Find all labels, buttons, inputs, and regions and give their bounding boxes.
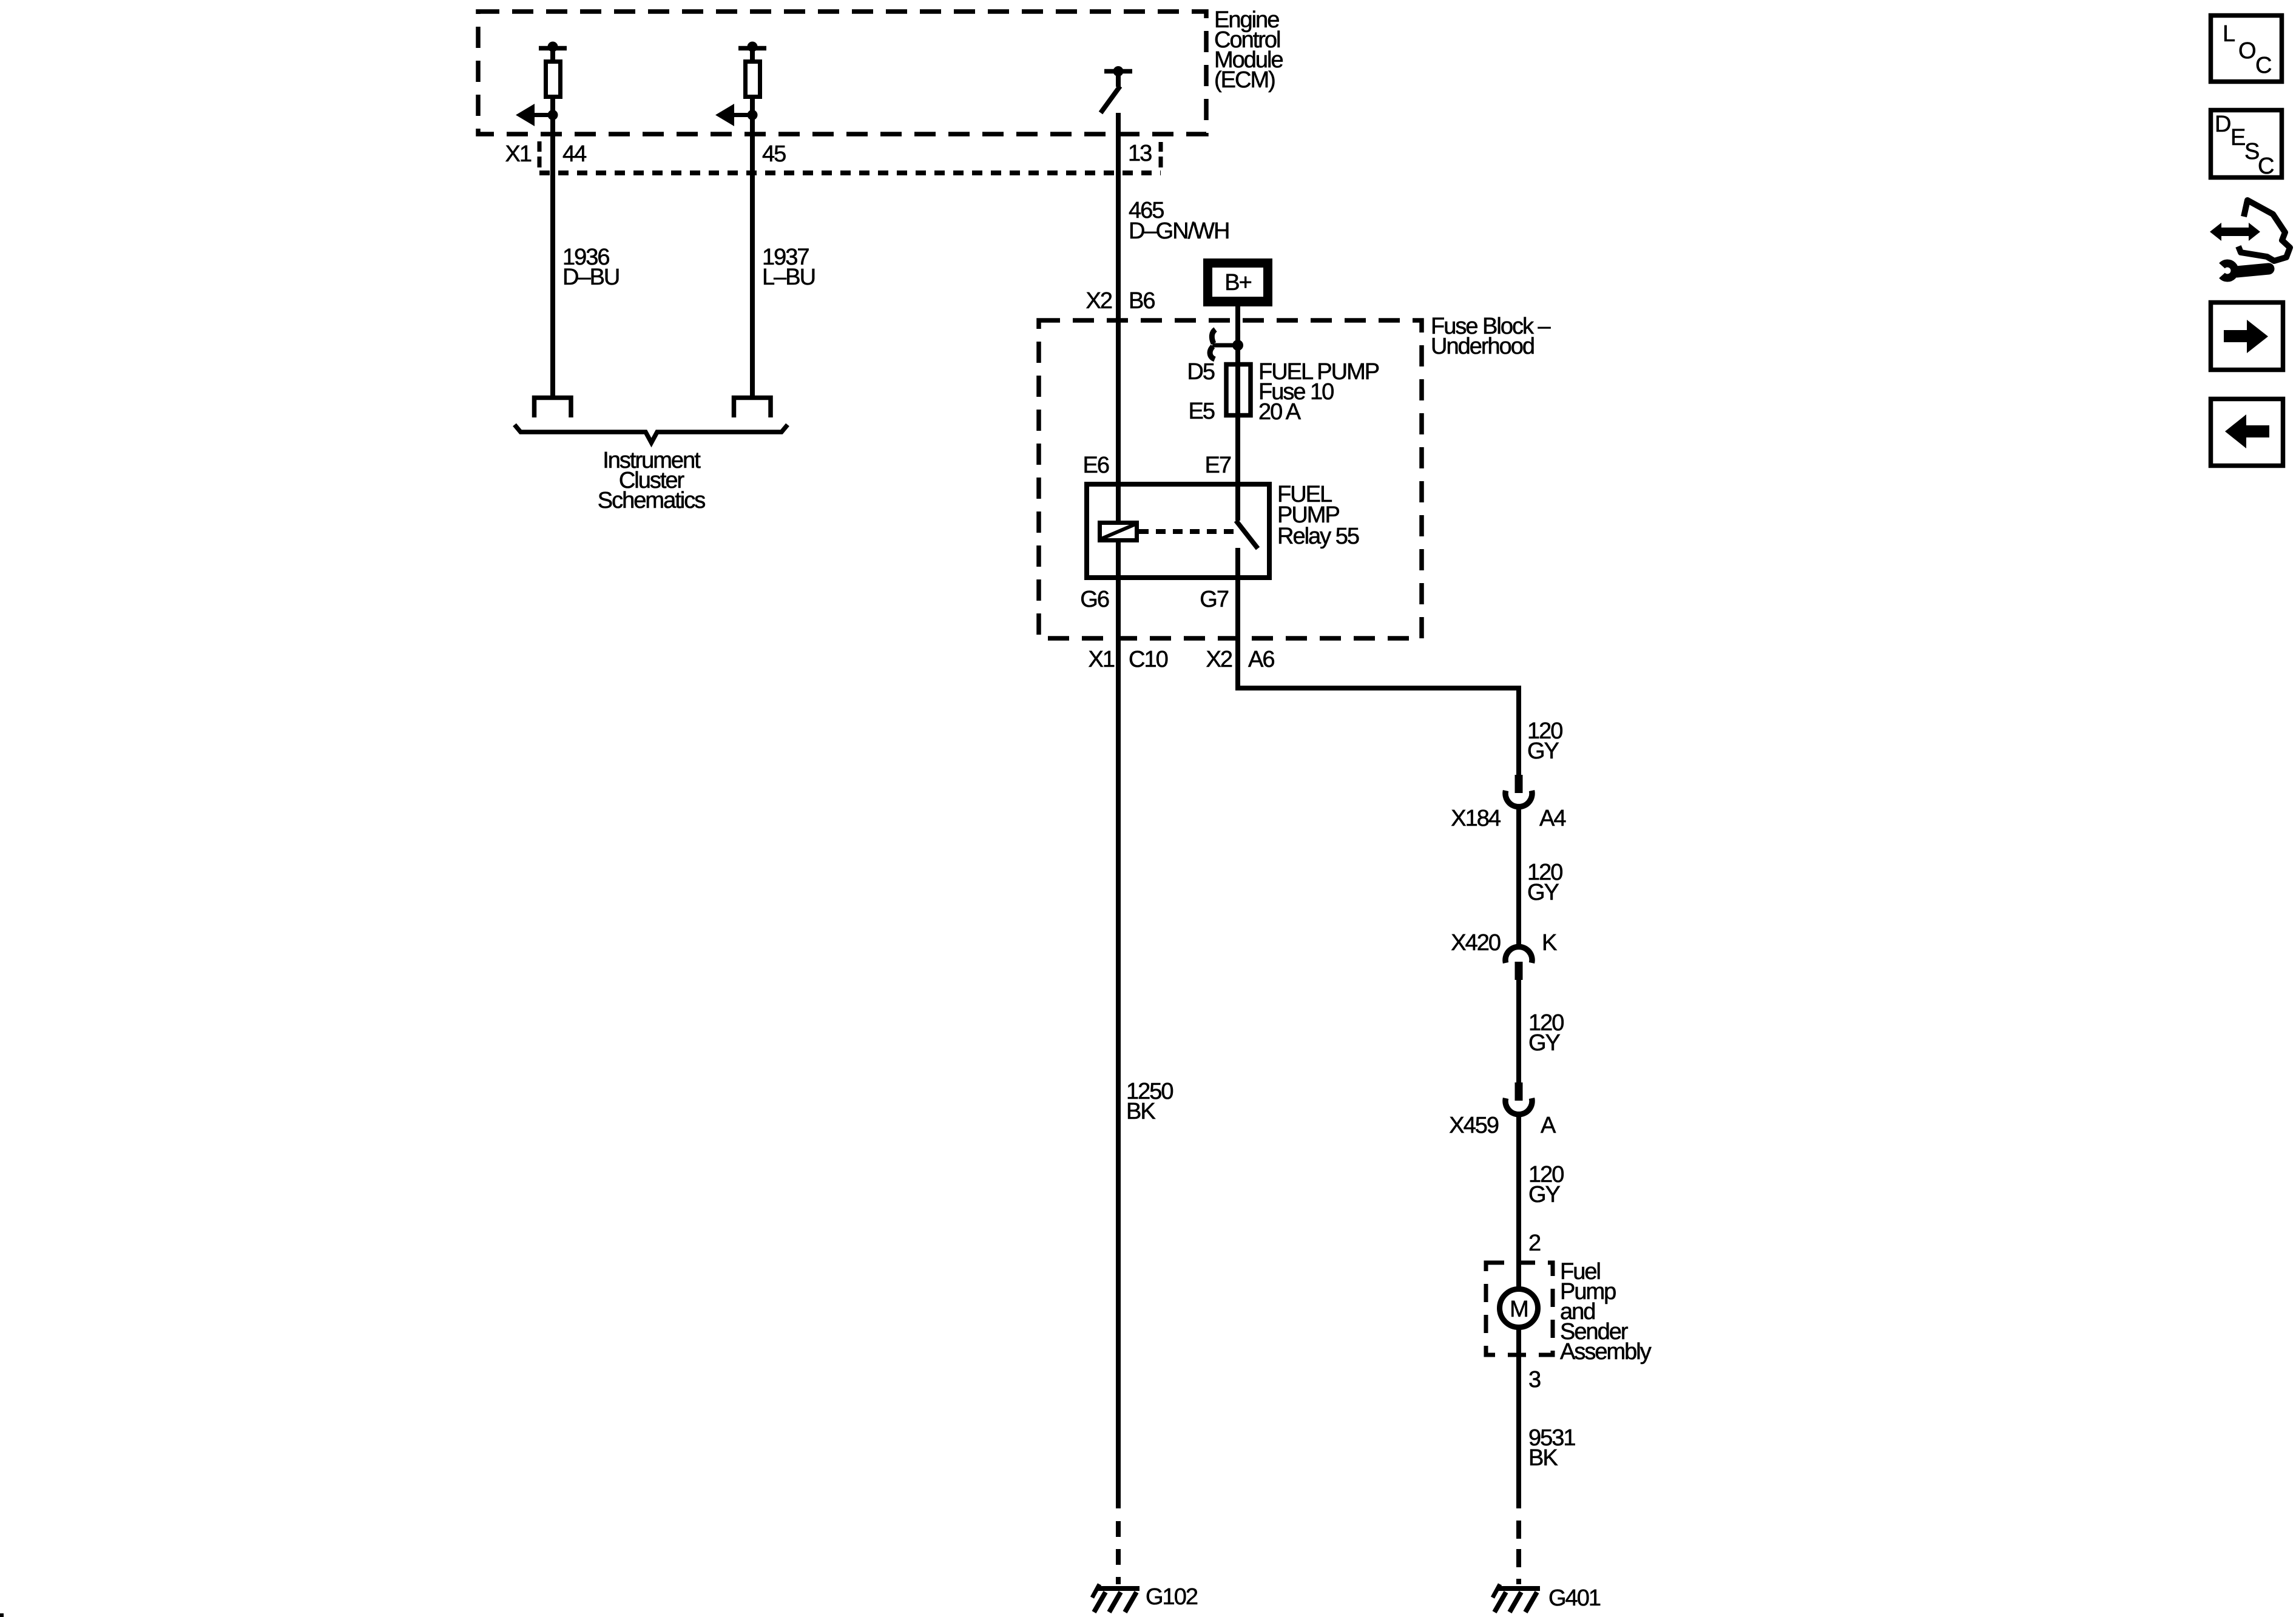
- svg-text:X420: X420: [1451, 930, 1501, 956]
- ECM module box (Engine Control Module): [478, 12, 1206, 134]
- svg-text:120GY: 120GY: [1527, 860, 1562, 905]
- junction node pin 44: [548, 110, 558, 120]
- wire X184 to X420: [1516, 808, 1521, 946]
- svg-text:13: 13: [1128, 141, 1152, 166]
- svg-text:X184: X184: [1451, 806, 1501, 831]
- svg-text:G6: G6: [1080, 587, 1109, 612]
- svg-text:A4: A4: [1539, 806, 1566, 831]
- svg-text:120GY: 120GY: [1528, 1010, 1564, 1056]
- svg-text:Fuse Block –Underhood: Fuse Block –Underhood: [1431, 314, 1551, 359]
- relay coil: [1100, 523, 1137, 541]
- svg-text:120GY: 120GY: [1528, 1162, 1564, 1207]
- arrow to instrument cluster (pin 45): [715, 104, 752, 126]
- svg-text:2: 2: [1528, 1230, 1541, 1256]
- brace (instrument cluster group): [515, 425, 788, 443]
- svg-text:L: L: [2223, 21, 2235, 47]
- svg-text:C10: C10: [1129, 647, 1168, 672]
- wire X420 to X459: [1516, 979, 1521, 1082]
- wire pin 44 down to cluster: [550, 99, 555, 396]
- fuel pump and sender assembly box: [1486, 1263, 1553, 1355]
- sidebar forward arrow icon: [2211, 303, 2283, 370]
- sidebar back arrow icon: [2211, 399, 2283, 466]
- svg-text:E: E: [2230, 125, 2245, 150]
- resistor R1 (ECM pull-up, pin 44): [539, 42, 567, 97]
- svg-text:44: 44: [562, 141, 587, 167]
- wire relay switch output to X184: [1238, 548, 1519, 775]
- svg-text:D5: D5: [1187, 359, 1214, 385]
- wire pin 45 down to cluster: [750, 99, 755, 396]
- svg-text:G7: G7: [1200, 587, 1229, 612]
- connector X184 terminal A4: [1505, 775, 1532, 807]
- dashed wire into ground G102: [1116, 1521, 1121, 1584]
- svg-text:3: 3: [1528, 1367, 1541, 1393]
- sidebar harness repair icon: [2210, 200, 2290, 278]
- wire 465 D-GN/WH (pin 13 to relay coil): [1116, 113, 1121, 521]
- svg-text:E5: E5: [1189, 399, 1215, 424]
- svg-text:O: O: [2238, 38, 2255, 64]
- svg-text:X459: X459: [1449, 1113, 1499, 1138]
- svg-text:X1: X1: [1089, 647, 1115, 672]
- svg-text:B+: B+: [1224, 270, 1251, 295]
- sidebar DESC icon: [2211, 110, 2282, 180]
- svg-text:EngineControlModule(ECM): EngineControlModule(ECM): [1214, 7, 1283, 93]
- ground G401: [1493, 1584, 1540, 1612]
- svg-text:B6: B6: [1129, 288, 1155, 314]
- ground G102: [1092, 1584, 1140, 1612]
- svg-text:M: M: [1510, 1297, 1528, 1322]
- svg-text:E7: E7: [1205, 453, 1231, 478]
- terminal connector (pin 45 wire end): [734, 398, 771, 418]
- svg-text:1937L–BU: 1937L–BU: [762, 245, 815, 290]
- relay box FUEL PUMP Relay 55: [1087, 484, 1269, 578]
- svg-text:C: C: [2258, 154, 2274, 179]
- fuse block underhood box: [1039, 320, 1422, 638]
- wire fuel pump to ground G401: [1516, 1328, 1521, 1508]
- page corner mark: [0, 1613, 4, 1617]
- arrow to instrument cluster (pin 44): [516, 104, 553, 126]
- svg-text:45: 45: [762, 141, 786, 167]
- wire B+ to fuse to relay switch: [1235, 306, 1240, 521]
- dashed wire into ground G401: [1516, 1521, 1521, 1584]
- fuse FUEL PUMP Fuse 10 20 A: [1226, 365, 1251, 416]
- junction node at fuse feed: [1232, 340, 1243, 351]
- svg-text:X2: X2: [1086, 288, 1112, 314]
- terminal connector (pin 44 wire end): [535, 398, 572, 418]
- wire relay coil to ground run (1250 BK): [1116, 542, 1121, 1508]
- connector X420 terminal K: [1505, 947, 1532, 980]
- sidebar LOC icon: [2211, 16, 2282, 82]
- relay switch arm: [1236, 521, 1258, 549]
- svg-text:D: D: [2215, 112, 2230, 137]
- wire X459 to fuel pump: [1516, 1115, 1521, 1288]
- svg-text:G102: G102: [1146, 1584, 1198, 1610]
- junction node pin 45: [748, 110, 758, 120]
- svg-text:A6: A6: [1248, 647, 1274, 672]
- svg-text:X1: X1: [505, 141, 532, 167]
- svg-text:C: C: [2255, 53, 2271, 78]
- resistor R2 (ECM pull-up, pin 45): [738, 42, 766, 97]
- motor M (fuel pump): [1500, 1289, 1538, 1328]
- svg-text:120GY: 120GY: [1527, 718, 1562, 764]
- svg-text:S: S: [2244, 139, 2259, 164]
- connector X1 band dotted line: [539, 170, 1161, 175]
- connector X459 terminal A: [1505, 1082, 1532, 1115]
- svg-text:K: K: [1542, 930, 1557, 956]
- relay actuating link (dashed): [1139, 529, 1235, 534]
- battery feed B+: [1203, 258, 1272, 306]
- svg-text:A: A: [1541, 1113, 1556, 1138]
- svg-text:X2: X2: [1206, 647, 1232, 672]
- svg-text:E6: E6: [1083, 453, 1109, 478]
- svg-text:G401: G401: [1548, 1585, 1601, 1611]
- connector X1 band separators: [539, 141, 1161, 167]
- switch (ECM low-side driver, pin 13): [1101, 66, 1132, 113]
- clip tap symbol at fuse feed: [1212, 329, 1215, 343]
